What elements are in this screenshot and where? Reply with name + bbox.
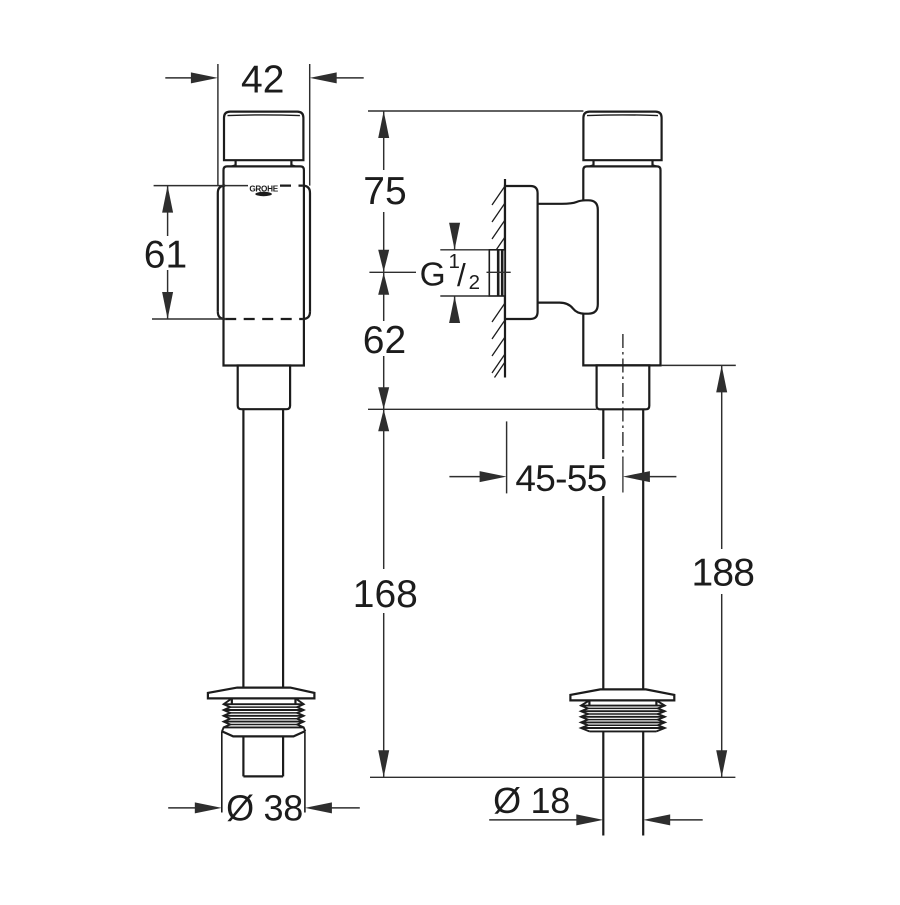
dimension 42: arrows and leader — [165, 72, 363, 83]
side view: flush pipe lower section — [603, 731, 643, 835]
dimension chain extension ticks at inlet center — [369, 271, 510, 273]
dimension 61: extension lines — [152, 186, 248, 319]
dimension G1/2: arrows — [449, 223, 460, 323]
dimension 45-55: arrows — [449, 471, 676, 482]
svg-text:45-55: 45-55 — [515, 458, 606, 499]
side view: pipe escutcheon flange — [570, 689, 674, 700]
dimension 42: value text — [241, 59, 284, 102]
dimension 168: value text — [353, 573, 418, 616]
dimension 62: dimension line with arrows — [378, 273, 389, 410]
side view: neck under button — [587, 160, 659, 166]
svg-text:188: 188 — [691, 552, 754, 595]
dimension G1/2: extension lines — [440, 250, 489, 296]
front view: pipe escutcheon flange — [208, 688, 315, 699]
side view: wall rosette escutcheon — [505, 186, 538, 319]
svg-text:2: 2 — [469, 271, 480, 294]
dimension 62: value text — [363, 319, 406, 362]
front view: concealed cover plate (dashed, hidden edges) — [218, 186, 310, 319]
svg-text:62: 62 — [363, 319, 406, 362]
dimension Ø38: value text — [226, 787, 303, 828]
dimension Ø38: arrows — [168, 802, 360, 813]
front view: threaded spud (Ø38) — [222, 698, 305, 731]
side view: G1/2 inlet nipple in wall — [489, 250, 505, 296]
front view: flush pipe — [243, 409, 283, 687]
dimension 168: dimension line with arrows — [378, 409, 389, 777]
dimension chain extension line at top (75) — [368, 110, 583, 112]
side view: outlet connector nut — [597, 365, 650, 409]
dimension 45-55: value text — [512, 458, 610, 499]
front view: neck under button — [229, 160, 298, 166]
dimension chain extension line at valve bottom — [368, 408, 597, 410]
front view: spud sleeve sides / extension lines — [222, 731, 305, 812]
reference line at urinal ceramic level — [370, 776, 735, 778]
side view: wall line with hatching — [492, 179, 505, 378]
dimension 45-55: wall extension line — [506, 421, 508, 493]
side view: pipe centerline (dash-dot) — [622, 334, 624, 493]
svg-text:/: / — [457, 257, 466, 293]
side view: push button cap — [583, 112, 661, 161]
dimension G1/2: thread size text — [420, 250, 480, 294]
side view: threaded spud (Ø38) — [581, 700, 665, 731]
front view: GROHE logo — [249, 185, 278, 197]
dimension 75: dimension line with arrows — [378, 111, 389, 272]
flush valve front view: push button cap — [224, 112, 303, 161]
svg-text:G: G — [420, 256, 446, 293]
dimension 42: extension lines — [218, 64, 310, 186]
dimension 188: dimension line with arrows — [716, 365, 727, 777]
side view: valve body housing — [583, 166, 660, 365]
dimension 61: value text — [144, 234, 187, 277]
dimension 75: value text — [363, 170, 406, 213]
dimension 61: dimension line with arrows — [162, 186, 173, 319]
svg-text:Ø 38: Ø 38 — [226, 787, 303, 828]
svg-text:42: 42 — [241, 59, 284, 102]
front view: valve body housing — [224, 166, 304, 365]
dimension Ø18: value text — [493, 780, 570, 821]
dimension 188: extension line at body bottom — [661, 364, 736, 366]
front view: outlet connector nut — [238, 366, 290, 410]
svg-text:Ø 18: Ø 18 — [493, 780, 570, 821]
dimension 188: value text — [691, 552, 754, 595]
dimension Ø18: arrows — [489, 814, 703, 825]
front view: pipe end inside spud — [243, 736, 283, 776]
svg-text:75: 75 — [363, 170, 406, 213]
side view: inlet socket and union nut — [538, 200, 598, 313]
side view: flush pipe upper section — [603, 409, 643, 689]
svg-text:61: 61 — [144, 234, 187, 277]
svg-text:168: 168 — [353, 573, 418, 616]
